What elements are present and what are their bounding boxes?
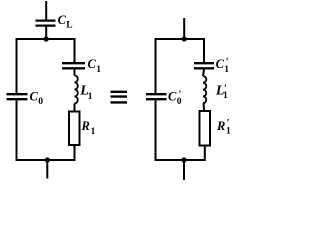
equivalence symbol [111, 92, 128, 103]
svg-text:1: 1 [226, 127, 231, 137]
svg-text:1: 1 [91, 127, 96, 137]
label C0' [168, 89, 182, 107]
wire: R1' to bottom rail [204, 146, 206, 162]
label C1 [88, 57, 102, 75]
svg-text:C: C [30, 90, 39, 104]
node: junction dot on right bottom rail [181, 157, 186, 162]
svg-text:1: 1 [224, 65, 229, 75]
node: junction dot on left bottom rail [45, 157, 50, 162]
svg-text:C: C [168, 90, 177, 104]
wire: right circuit right branch upper [203, 38, 205, 62]
capacitor C1 [62, 63, 85, 68]
wire: C1' to L1' [203, 69, 204, 76]
svg-text:1: 1 [96, 65, 101, 75]
wire: L1' to R1' [203, 103, 206, 111]
wire: right circuit bottom terminal stub [183, 160, 185, 180]
label L1' [215, 83, 228, 101]
node: junction dot on left top rail [44, 36, 49, 41]
node: junction dot on right top rail [182, 36, 187, 41]
wire: R1 to bottom rail [74, 145, 76, 161]
wire: CL bottom plate to top rail [45, 27, 47, 39]
wire: right circuit top rail [156, 38, 205, 40]
svg-text:1: 1 [88, 92, 93, 102]
svg-text:0: 0 [177, 97, 182, 107]
inductor L1' [203, 76, 206, 103]
svg-text:R: R [81, 119, 90, 133]
svg-text:1: 1 [223, 91, 228, 101]
capacitor C1' [194, 63, 214, 68]
label R1' [216, 118, 231, 137]
wire: right circuit bottom rail [156, 159, 205, 161]
capacitor C0' [146, 94, 167, 99]
svg-text:C: C [216, 57, 225, 71]
wire: right left-rail lower segment [155, 100, 157, 161]
wire: right circuit top terminal stub [183, 18, 185, 39]
svg-text:L: L [66, 21, 72, 31]
wire: left circuit top rail [17, 38, 75, 40]
wire: left rail lower segment [16, 100, 18, 161]
capacitor C0 [7, 94, 28, 99]
label CL [58, 13, 73, 31]
label C0 [30, 90, 44, 107]
wire: right left-rail upper segment [155, 38, 157, 93]
svg-text:R: R [216, 119, 225, 133]
label R1 [81, 119, 96, 137]
svg-text:C: C [88, 57, 97, 71]
wire: left circuit bottom rail [17, 159, 75, 161]
wire: left rail upper segment [16, 38, 18, 93]
resistor R1 [69, 112, 80, 146]
wire: left circuit right branch upper [74, 38, 76, 62]
wire: left circuit top terminal stub [45, 1, 47, 20]
wire: L1 to R1 [74, 104, 76, 112]
resistor R1' [200, 111, 211, 146]
label L1 [79, 83, 93, 102]
capacitor CL [36, 21, 56, 26]
wire: C1 to L1 [74, 69, 76, 75]
inductor L1 [74, 76, 77, 104]
svg-text:C: C [58, 13, 67, 27]
label C1' [216, 57, 230, 75]
svg-text:0: 0 [38, 97, 43, 107]
wire: left circuit bottom terminal stub [46, 160, 48, 179]
